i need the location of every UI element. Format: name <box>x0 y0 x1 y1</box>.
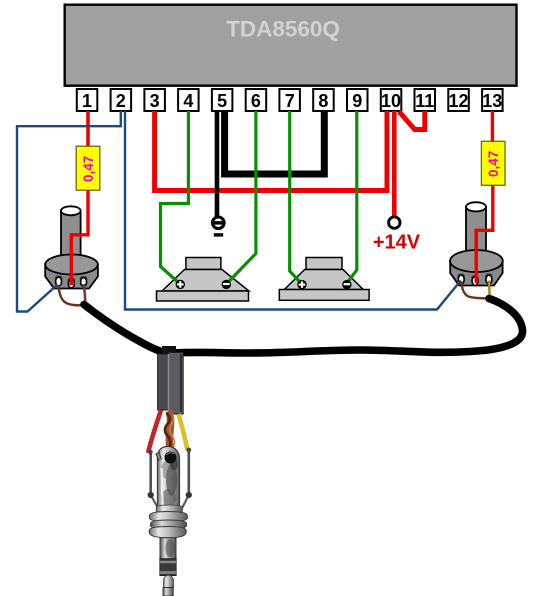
ground terminal (minus) <box>213 217 225 237</box>
pin 4 <box>178 89 199 111</box>
speaker LS1 (left) <box>157 258 250 302</box>
pin 11 <box>415 89 436 111</box>
cable from VR2 to connector <box>173 299 523 354</box>
svg-text:TDA8560Q: TDA8560Q <box>226 17 340 42</box>
wire brown pigtail VR1 left pin to cable <box>58 286 84 306</box>
svg-text:7: 7 <box>285 91 295 111</box>
svg-text:0,47: 0,47 <box>486 151 501 177</box>
pin 8 <box>313 89 334 111</box>
pin 5 <box>212 89 233 111</box>
plug tip <box>163 575 174 596</box>
pin 9 <box>347 89 368 111</box>
svg-text:10: 10 <box>381 91 401 111</box>
speaker LS2 (right) <box>279 258 369 301</box>
plug wire yellow <box>179 414 188 450</box>
plug wire red <box>148 410 161 453</box>
IC U1 TDA8560Q (power amplifier) <box>65 5 517 86</box>
pin 10 <box>381 89 402 111</box>
potentiometer VR1 (left) <box>45 206 98 288</box>
svg-text:11: 11 <box>415 91 434 111</box>
wire C1 to VR1 wiper <box>71 191 88 286</box>
capacitor C2 value 0,47 <box>481 141 505 185</box>
wire blue pin2 loop to VR1 left pin <box>17 111 121 312</box>
pin 12 <box>448 89 469 111</box>
wire red bus pin3 to pin10 <box>155 111 387 191</box>
wire black U pin5 to pin8 <box>225 111 325 174</box>
wire green pin4 to LS1 plus <box>161 111 189 284</box>
svg-text:8: 8 <box>318 91 328 111</box>
speaker LS1 minus terminal <box>222 280 231 289</box>
svg-text:0,47: 0,47 <box>81 156 96 182</box>
svg-text:6: 6 <box>251 91 261 111</box>
wire pin13 to capacitor C2 <box>491 111 494 142</box>
wire pin10 to +14V terminal <box>392 111 397 216</box>
+14V terminal <box>389 217 400 228</box>
svg-text:13: 13 <box>482 91 502 111</box>
wire olive pigtail VR2 right pin to cable <box>488 281 491 300</box>
wire brown pigtail VR2 left pin to cable <box>461 282 489 299</box>
wire blue pin2 run to VR2 left pin <box>125 111 461 310</box>
svg-text:5: 5 <box>217 91 227 111</box>
svg-text:+14V: +14V <box>373 232 421 254</box>
wire C2 to VR2 wiper <box>476 185 493 283</box>
pin 1 <box>77 89 98 111</box>
wire pin11 to pin10 (red jumper) <box>399 111 425 130</box>
wire maroon pigtail VR1 right pin to cable <box>84 284 86 304</box>
potentiometer VR2 (right) <box>450 202 503 285</box>
capacitor C1 value 0,47 <box>76 146 100 190</box>
pin 13 <box>482 89 503 111</box>
wire pin1 to capacitor C1 <box>86 111 90 147</box>
plug clamp arms <box>148 448 192 516</box>
svg-text:3: 3 <box>150 91 160 111</box>
cable from VR1 to connector <box>84 305 167 354</box>
speaker LS2 minus terminal <box>342 280 351 289</box>
plug lower barrel <box>160 538 176 576</box>
plug upper body cylinder <box>156 446 180 509</box>
connector heat-shrink sleeve <box>158 346 184 414</box>
pin 2 <box>111 89 132 111</box>
plug wire copper twisted <box>165 411 175 456</box>
svg-text:2: 2 <box>116 91 126 111</box>
svg-text:12: 12 <box>448 91 468 111</box>
wire green pin6 to LS1 minus <box>227 111 256 283</box>
speaker LS1 plus terminal <box>176 280 185 289</box>
pin 6 <box>246 89 267 111</box>
wire green pin9 to LS2 minus <box>347 111 357 283</box>
speaker LS2 plus terminal <box>297 280 306 289</box>
wire green pin7 to LS2 plus <box>290 111 302 284</box>
svg-text:4: 4 <box>183 91 193 111</box>
plug knurled ring nut <box>149 505 187 538</box>
pin 3 <box>144 89 165 111</box>
wire pin5 to ground terminal <box>215 111 220 217</box>
pin 7 <box>279 89 300 111</box>
svg-text:9: 9 <box>352 91 362 111</box>
svg-text:1: 1 <box>82 91 92 111</box>
